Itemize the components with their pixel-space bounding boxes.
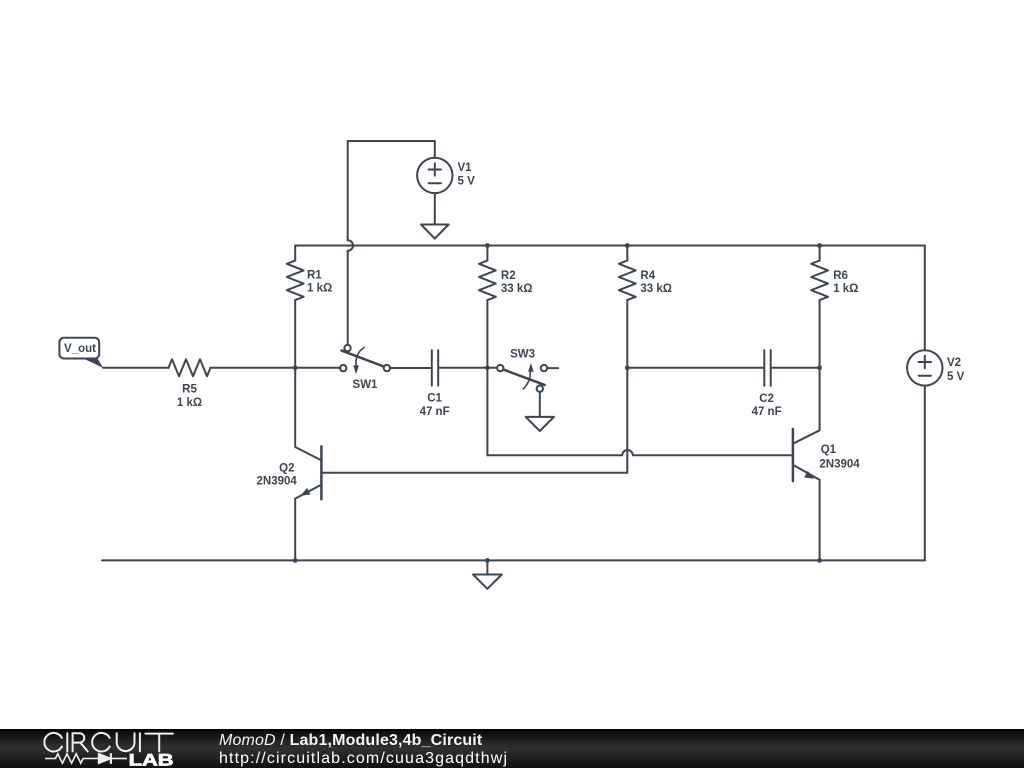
svg-text:SW3: SW3 xyxy=(510,349,535,361)
wire top rail xyxy=(295,245,925,247)
wire C1 to SW3 xyxy=(439,367,497,369)
node Q1 emitter xyxy=(817,558,822,563)
svg-text:2N3904: 2N3904 xyxy=(819,459,860,471)
svg-text:5 V: 5 V xyxy=(458,176,476,188)
svg-text:33 kΩ: 33 kΩ xyxy=(501,283,533,295)
label C1 xyxy=(420,392,450,417)
svg-text:C1: C1 xyxy=(427,392,442,404)
resistor R6 xyxy=(811,246,828,368)
svg-text:47 nF: 47 nF xyxy=(420,406,450,418)
svg-text:Q2: Q2 xyxy=(279,463,294,475)
svg-text:C2: C2 xyxy=(759,393,774,405)
svg-text:5 V: 5 V xyxy=(947,371,965,383)
label R6 xyxy=(833,270,858,295)
label R5 xyxy=(177,384,202,410)
label C2 xyxy=(752,393,782,418)
voltage source V2 xyxy=(907,350,942,385)
node Q2 emitter xyxy=(293,558,298,563)
switch SW1 xyxy=(340,345,390,374)
ground under V1 xyxy=(421,225,449,239)
junction dots xyxy=(293,243,822,563)
svg-text:R1: R1 xyxy=(307,270,322,282)
wire R4 to C2 xyxy=(627,367,763,369)
resistor R1 xyxy=(287,246,304,368)
svg-text:1 kΩ: 1 kΩ xyxy=(307,283,332,295)
CircuitLab logo xyxy=(0,729,200,768)
label V2 xyxy=(947,357,965,383)
footer title xyxy=(219,732,482,750)
wire V_out to R5 xyxy=(103,367,169,369)
svg-text:Q1: Q1 xyxy=(821,444,837,456)
label SW1 xyxy=(353,379,379,391)
wire ground stem bottom xyxy=(486,560,488,574)
wire V1 to ground xyxy=(434,193,436,224)
wire right rail bottom (V2 minus lead) xyxy=(924,386,926,561)
wire SW3 stub xyxy=(547,367,558,369)
node ground xyxy=(485,558,490,563)
label V_out xyxy=(64,343,96,355)
label SW3 xyxy=(510,349,535,361)
wire SW1 to C1 xyxy=(390,367,431,369)
svg-text:R4: R4 xyxy=(640,270,655,282)
svg-text:2N3904: 2N3904 xyxy=(257,476,298,488)
ground under SW3 xyxy=(526,417,554,431)
node R4 top xyxy=(625,243,630,248)
capacitor C1 xyxy=(432,350,438,385)
footer bar xyxy=(0,729,1024,768)
node R2 mid xyxy=(485,365,490,370)
svg-text:V2: V2 xyxy=(947,357,961,369)
svg-text:1 kΩ: 1 kΩ xyxy=(177,397,202,409)
wire hop over top rail xyxy=(348,240,353,251)
voltage source V1 xyxy=(417,158,452,193)
label R1 xyxy=(307,270,332,295)
resistor R5 xyxy=(169,359,211,376)
wire Q2 base line xyxy=(322,368,627,473)
svg-text:R2: R2 xyxy=(501,270,516,282)
label R2 xyxy=(501,270,533,295)
wire SW3 to ground xyxy=(539,392,541,417)
label Q1 xyxy=(819,444,860,470)
label V1 xyxy=(458,162,476,187)
wire C2 to R6 node xyxy=(772,367,820,369)
wire base line to Q1 with hop xyxy=(487,450,792,455)
svg-text:R5: R5 xyxy=(182,384,197,396)
capacitor C2 xyxy=(764,350,770,386)
footer url xyxy=(219,750,508,768)
wire right rail top (V2 plus lead) xyxy=(924,246,926,351)
svg-text:V_out: V_out xyxy=(64,343,96,355)
svg-text:LAB: LAB xyxy=(129,751,174,768)
node R6 mid xyxy=(817,365,822,370)
label R4 xyxy=(640,270,672,295)
svg-text:V1: V1 xyxy=(458,162,473,174)
transistor Q1 xyxy=(793,368,820,561)
node R6 top xyxy=(817,243,822,248)
transistor Q2 xyxy=(295,368,321,561)
svg-text:SW1: SW1 xyxy=(353,379,379,391)
wire bottom rail xyxy=(102,559,925,561)
node R2 top xyxy=(485,243,490,248)
svg-text:47 nF: 47 nF xyxy=(752,406,782,418)
resistor R4 xyxy=(619,246,636,368)
switch SW3 xyxy=(497,363,547,392)
wire V1 top loop xyxy=(348,141,435,240)
resistor R2 xyxy=(479,246,496,368)
node R1 mid xyxy=(293,365,298,370)
svg-text:33 kΩ: 33 kΩ xyxy=(640,283,672,295)
svg-text:R6: R6 xyxy=(833,270,848,282)
wire V1 loop to SW1 xyxy=(347,251,349,345)
node V_out flag xyxy=(59,338,103,368)
wire R5 to SW1 xyxy=(211,367,340,369)
wire R2 node down xyxy=(486,368,488,456)
ground bottom center xyxy=(473,575,502,589)
svg-text:1 kΩ: 1 kΩ xyxy=(833,283,858,295)
node R4 mid xyxy=(625,365,630,370)
label Q2 xyxy=(257,463,298,488)
